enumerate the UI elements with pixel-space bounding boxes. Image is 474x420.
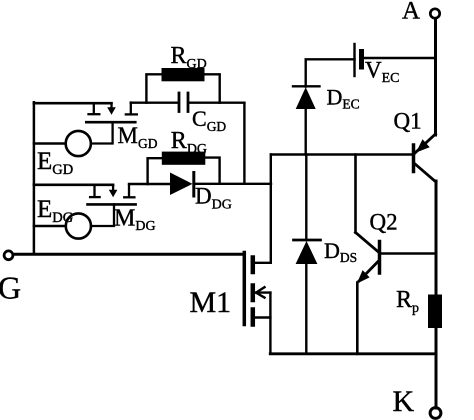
svg-text:Q1: Q1 — [394, 109, 422, 134]
M1 channel segment bottom — [251, 310, 256, 325]
svg-text:MDG: MDG — [114, 205, 156, 234]
M1 source riser — [269, 293, 271, 354]
M1 source stub — [255, 316, 270, 318]
wire A down to battery junction — [434, 19, 437, 136]
battery VEC long plate — [353, 44, 355, 76]
wire DDG to M1 drain riser — [194, 183, 271, 185]
svg-text:DDG: DDG — [195, 184, 232, 213]
svg-text:RGD: RGD — [171, 43, 207, 72]
M1 body line — [256, 291, 270, 293]
wire DEC top to battery — [306, 59, 355, 86]
transistor Q2 — [356, 155, 380, 354]
RDG right lead — [205, 158, 219, 184]
MGD gate riser — [91, 122, 113, 143]
Q2 emitter arrowhead — [357, 270, 370, 284]
resistor RDG — [162, 152, 206, 165]
wire EDG to left rail — [34, 225, 66, 227]
MDG gate bar — [88, 203, 136, 206]
svg-text:DEC: DEC — [327, 85, 360, 112]
MDG source stub — [93, 185, 95, 196]
RGD right lead — [205, 74, 220, 102]
diode DEC — [293, 86, 320, 154]
MDG drain stub — [128, 185, 130, 196]
RGD left lead — [146, 74, 161, 102]
svg-text:A: A — [402, 0, 420, 25]
MDG gate riser — [91, 204, 114, 226]
Q1 emitter arrowhead — [416, 139, 430, 152]
MDG arrowhead — [109, 190, 118, 198]
svg-text:Rp: Rp — [396, 287, 419, 316]
terminal G circle — [4, 251, 13, 260]
svg-text:K: K — [393, 385, 415, 418]
MOSFET MGD — [86, 103, 137, 144]
diode DDS — [294, 155, 321, 354]
resistor Rp — [428, 295, 442, 329]
G bus wire to M1 gate — [14, 253, 244, 256]
source EGD circle — [66, 131, 91, 156]
bottom bus wire — [270, 352, 435, 355]
wire Q1 collector down right rail — [435, 181, 438, 295]
MOSFET M1 — [244, 155, 270, 354]
wire Rp to K — [435, 328, 438, 408]
M1 channel segment mid — [251, 286, 256, 301]
M1 gate bar — [243, 253, 247, 325]
M1 drain stub and riser — [255, 155, 271, 263]
svg-text:Q2: Q2 — [370, 210, 398, 235]
capacitor CGD plates — [179, 93, 188, 112]
MGD arrow — [110, 104, 112, 110]
MGD drain stub — [130, 103, 132, 114]
wire MGD drain to CGD node — [131, 101, 177, 103]
MDG arrow — [112, 185, 114, 191]
terminal A circle — [430, 9, 439, 18]
MGD gate bar — [86, 121, 135, 124]
svg-text:G: G — [0, 270, 21, 306]
diode DDG — [170, 173, 194, 197]
MGD arrowhead — [107, 107, 116, 115]
top loop wire — [34, 102, 112, 105]
terminal K circle — [430, 408, 441, 419]
RDG left lead — [148, 158, 162, 184]
transistor Q1 — [414, 134, 437, 182]
Q2 base wire — [381, 252, 436, 254]
svg-text:DDS: DDS — [324, 238, 357, 265]
left vertical wire — [33, 102, 36, 254]
source EDG circle — [66, 213, 91, 238]
svg-text:RDG: RDG — [171, 128, 207, 157]
MOSFET MDG — [88, 185, 136, 226]
wire EGD to left rail — [34, 142, 66, 144]
top bus wire (Q1 base) — [271, 153, 414, 155]
svg-text:M1: M1 — [190, 286, 232, 319]
M1 body arrowhead — [256, 287, 265, 297]
svg-text:CGD: CGD — [192, 106, 226, 134]
M1 channel segment top — [251, 258, 256, 273]
wire battery to right rail — [364, 57, 436, 59]
battery VEC short thick plate — [359, 52, 364, 68]
riser CGD node down to DDG node — [243, 103, 245, 184]
svg-text:MGD: MGD — [118, 123, 158, 151]
MGD source stub — [93, 103, 95, 113]
svg-text:VEC: VEC — [365, 58, 400, 87]
lower loop wire — [34, 184, 113, 187]
wire MDG drain to DDG — [129, 183, 170, 185]
CGD right wire — [189, 101, 244, 103]
resistor RGD — [162, 68, 205, 81]
svg-text:EDG: EDG — [37, 196, 74, 226]
